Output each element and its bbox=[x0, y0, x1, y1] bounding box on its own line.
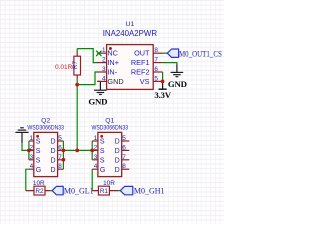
svg-text:GND: GND bbox=[107, 77, 123, 86]
svg-text:OUT: OUT bbox=[134, 49, 150, 58]
svg-text:6: 6 bbox=[58, 144, 62, 151]
svg-text:3.3V: 3.3V bbox=[154, 90, 171, 100]
svg-text:S: S bbox=[36, 139, 41, 146]
svg-text:REF2: REF2 bbox=[131, 67, 150, 76]
svg-text:D: D bbox=[115, 157, 120, 164]
svg-text:S: S bbox=[36, 157, 41, 164]
svg-text:G: G bbox=[36, 167, 41, 174]
svg-text:IN+: IN+ bbox=[107, 58, 119, 67]
svg-text:D: D bbox=[115, 139, 120, 146]
svg-text:M0_GH1: M0_GH1 bbox=[134, 186, 165, 195]
svg-text:10R: 10R bbox=[103, 180, 115, 187]
svg-text:8: 8 bbox=[154, 47, 158, 54]
svg-text:5: 5 bbox=[122, 135, 126, 142]
svg-text:D: D bbox=[115, 167, 120, 174]
svg-text:IN-: IN- bbox=[107, 67, 117, 76]
svg-text:S: S bbox=[100, 139, 105, 146]
svg-text:GND: GND bbox=[168, 79, 187, 89]
svg-text:1: 1 bbox=[102, 47, 106, 54]
svg-text:7: 7 bbox=[122, 154, 126, 161]
svg-text:1: 1 bbox=[94, 135, 98, 142]
svg-text:7: 7 bbox=[58, 154, 62, 161]
svg-text:3: 3 bbox=[94, 154, 98, 161]
svg-text:2: 2 bbox=[102, 57, 106, 64]
svg-text:INA240A2PWR: INA240A2PWR bbox=[103, 29, 158, 38]
svg-text:WSD3066DN33: WSD3066DN33 bbox=[27, 125, 64, 132]
svg-text:8: 8 bbox=[122, 163, 126, 170]
svg-text:S: S bbox=[36, 148, 41, 155]
svg-text:D: D bbox=[51, 139, 56, 146]
svg-text:Q1: Q1 bbox=[105, 117, 114, 124]
svg-text:U1: U1 bbox=[126, 21, 135, 28]
svg-text:4: 4 bbox=[30, 163, 34, 170]
svg-text:5: 5 bbox=[58, 135, 62, 142]
svg-text:WSD3066DN33: WSD3066DN33 bbox=[91, 125, 128, 132]
svg-text:4: 4 bbox=[94, 163, 98, 170]
svg-text:D: D bbox=[51, 157, 56, 164]
svg-text:3: 3 bbox=[102, 66, 106, 73]
svg-text:3: 3 bbox=[30, 154, 34, 161]
svg-text:M0_OUT1_CS: M0_OUT1_CS bbox=[179, 49, 222, 59]
svg-text:Q2: Q2 bbox=[41, 117, 50, 124]
svg-text:2: 2 bbox=[94, 144, 98, 151]
svg-text:4: 4 bbox=[102, 75, 106, 82]
svg-text:D: D bbox=[51, 148, 56, 155]
svg-text:R2: R2 bbox=[35, 188, 44, 195]
svg-text:R7: R7 bbox=[72, 60, 79, 68]
svg-text:2: 2 bbox=[30, 144, 34, 151]
svg-text:S: S bbox=[100, 148, 105, 155]
svg-text:6: 6 bbox=[122, 144, 126, 151]
svg-text:5: 5 bbox=[154, 75, 158, 82]
svg-text:D: D bbox=[115, 148, 120, 155]
svg-text:7: 7 bbox=[154, 57, 158, 64]
svg-text:VS: VS bbox=[140, 77, 150, 86]
svg-text:D: D bbox=[51, 167, 56, 174]
svg-text:6: 6 bbox=[154, 66, 158, 73]
svg-text:S: S bbox=[100, 157, 105, 164]
svg-text:GND: GND bbox=[88, 96, 107, 106]
svg-text:G: G bbox=[100, 167, 105, 174]
svg-text:R1: R1 bbox=[100, 188, 109, 195]
svg-text:10R: 10R bbox=[33, 180, 45, 187]
svg-text:M0_GL1: M0_GL1 bbox=[64, 186, 94, 195]
svg-text:8: 8 bbox=[58, 163, 62, 170]
svg-text:REF1: REF1 bbox=[131, 58, 150, 67]
svg-text:NC: NC bbox=[107, 49, 118, 58]
svg-text:0.01R: 0.01R bbox=[55, 64, 73, 71]
svg-text:1: 1 bbox=[30, 135, 34, 142]
